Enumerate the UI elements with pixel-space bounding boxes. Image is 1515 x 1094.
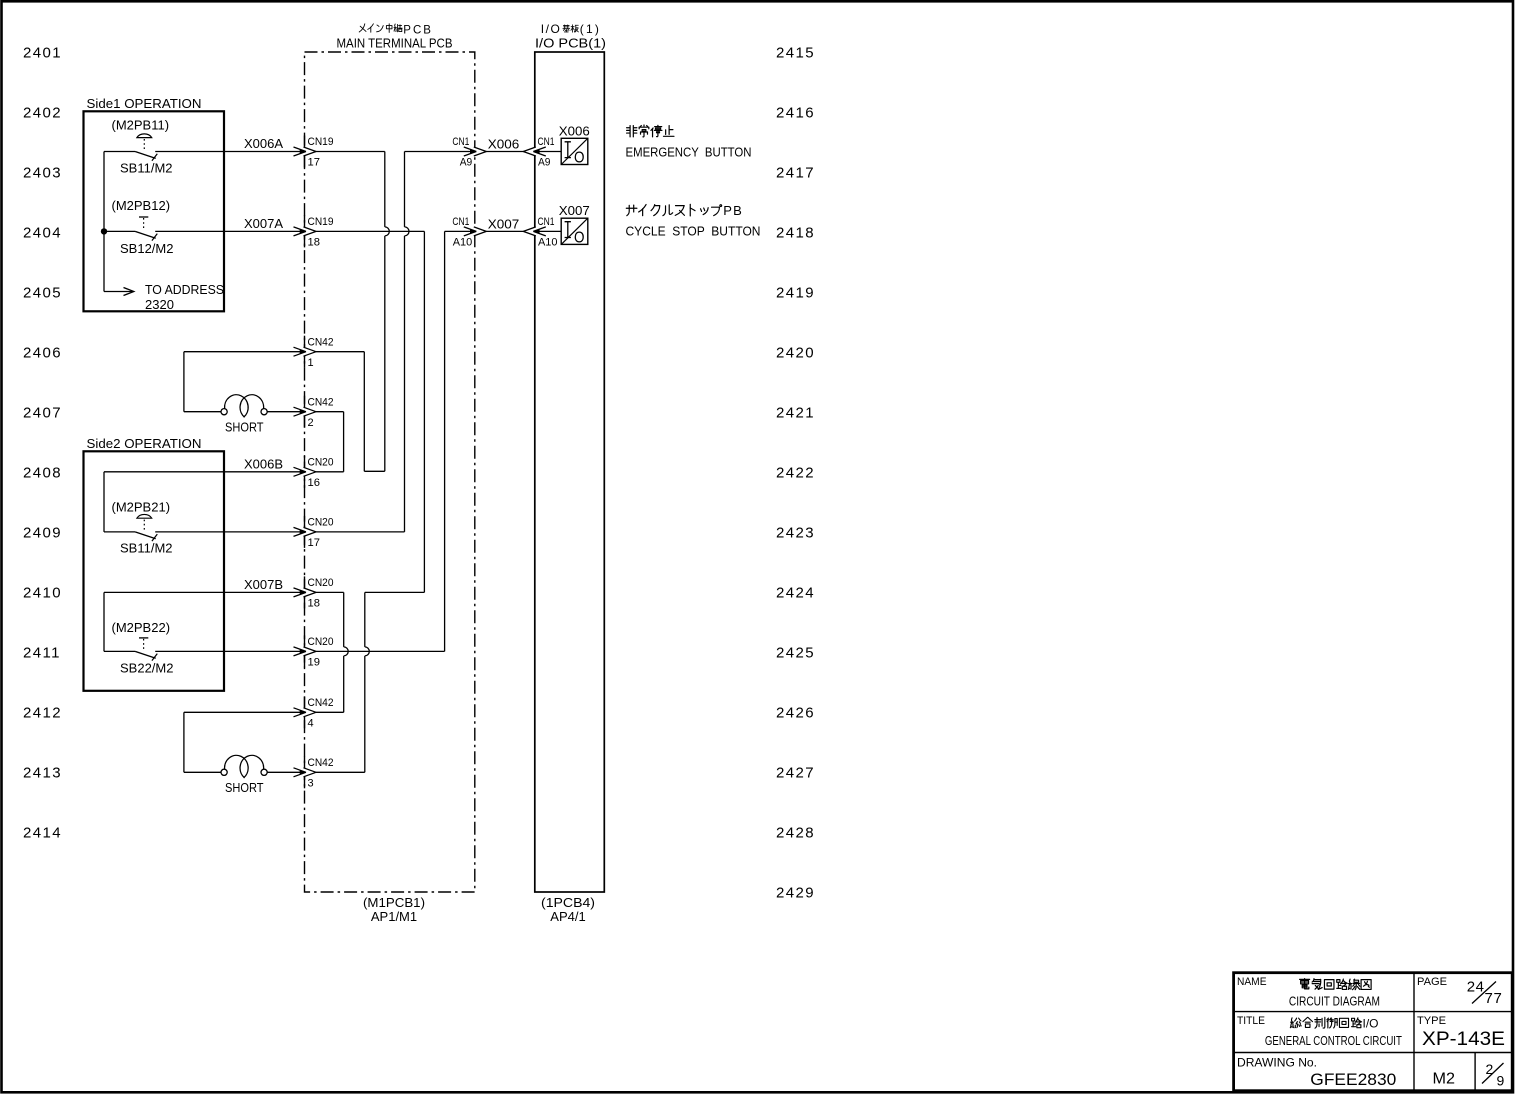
connector CN20 pin 19	[294, 635, 334, 668]
wire vertical CN20-17 riser to X006	[404, 152, 406, 227]
svg-text:19: 19	[308, 657, 321, 669]
wire from Side2 SB11 to CN20-17	[155, 531, 304, 533]
Side1 OPERATION station box	[84, 111, 225, 311]
wire X006A from SB11 to CN19-17	[155, 136, 304, 151]
label cycle stop button	[626, 203, 761, 239]
pushbutton SB22/M2 (M2PB22) cycle stop, Side2	[104, 620, 173, 676]
pushbutton SB12/M2 (M2PB12) cycle stop, Side1	[104, 198, 173, 256]
svg-text:18: 18	[308, 237, 321, 249]
svg-text:EMERGENCY BUTTON: EMERGENCY BUTTON	[626, 146, 752, 160]
title block TYPE cell XP-143E	[1417, 1015, 1505, 1050]
svg-text:CN42: CN42	[308, 697, 334, 709]
wire CN42-4 internal	[315, 711, 344, 713]
svg-text:A10: A10	[538, 237, 558, 249]
wire CN20-18 cross link	[365, 591, 425, 593]
wire U-bottom CN42-1 to X006A	[364, 470, 385, 472]
connector CN1-A10 I/O PCB side	[523, 216, 557, 249]
connector CN20 pin 16	[294, 456, 334, 489]
Side2 bus wire lower	[103, 592, 105, 651]
svg-text:CN1: CN1	[538, 136, 555, 148]
svg-text:SB11/M2: SB11/M2	[120, 541, 173, 556]
svg-text:TO ADDRESS: TO ADDRESS	[145, 282, 224, 297]
svg-text:(M2PB22): (M2PB22)	[112, 620, 171, 635]
connector CN42 pin 1	[294, 336, 334, 369]
svg-text:2403: 2403	[23, 164, 62, 181]
I/O PCB bottom designator (1PCB4) AP4/1	[541, 895, 595, 924]
svg-text:17: 17	[308, 157, 321, 169]
net X007 wire between boards	[485, 217, 524, 231]
svg-text:2404: 2404	[23, 224, 62, 241]
right address column 2415-2429	[776, 44, 815, 901]
svg-text:X006: X006	[488, 138, 520, 152]
svg-text:CN20: CN20	[308, 636, 334, 648]
wire CN19-17 internal	[315, 151, 385, 153]
svg-text:2414: 2414	[23, 824, 62, 841]
SHORT jumper plug between CN42-4 and CN42-3	[184, 712, 305, 795]
svg-text:TYPE: TYPE	[1417, 1015, 1446, 1027]
svg-text:2: 2	[308, 417, 314, 429]
svg-text:2415: 2415	[776, 44, 815, 61]
svg-text:CIRCUIT DIAGRAM: CIRCUIT DIAGRAM	[1289, 994, 1380, 1009]
connector CN1-A10 main PCB side	[452, 216, 486, 249]
svg-text:2425: 2425	[776, 644, 815, 661]
connector CN42 pin 3	[294, 756, 334, 789]
svg-text:2401: 2401	[23, 44, 62, 61]
svg-text:AP4/1: AP4/1	[550, 909, 585, 924]
svg-text:SB11/M2: SB11/M2	[120, 161, 173, 176]
title block TITLE cell	[1237, 1015, 1402, 1048]
svg-text:X007A: X007A	[244, 216, 283, 231]
svg-text:X006: X006	[559, 124, 590, 138]
svg-text:2402: 2402	[23, 104, 62, 121]
svg-text:CN42: CN42	[308, 336, 334, 348]
svg-text:CN20: CN20	[308, 517, 334, 529]
svg-text:2410: 2410	[23, 584, 62, 601]
svg-text:2422: 2422	[776, 464, 815, 481]
svg-text:A9: A9	[460, 157, 473, 169]
wire from Side2 SB22 to CN20-19	[155, 650, 304, 652]
svg-text:TITLE: TITLE	[1237, 1015, 1265, 1027]
wire vertical CN42-1 riser	[363, 352, 365, 472]
I/O PCB board outline (1PCB4)	[535, 52, 605, 892]
svg-text:2420: 2420	[776, 344, 815, 361]
wire CN42-1 internal	[315, 351, 364, 353]
svg-text:9: 9	[1497, 1072, 1505, 1088]
pushbutton SB11/M2 (M2PB21) emergency, Side2	[104, 500, 173, 556]
svg-text:2423: 2423	[776, 524, 815, 541]
main terminal PCB bottom designator (M1PCB1) AP1/M1	[363, 895, 425, 924]
svg-text:2413: 2413	[23, 764, 62, 781]
connector CN42 pin 4	[294, 696, 334, 729]
svg-text:Side1 OPERATION: Side1 OPERATION	[87, 96, 202, 111]
junction node SB11/SB12 bus	[101, 228, 107, 234]
svg-text:CYCLE STOP BUTTON: CYCLE STOP BUTTON	[626, 225, 761, 239]
connector CN19 pin 17	[294, 136, 334, 169]
svg-text:2320: 2320	[145, 297, 174, 312]
label emergency button	[626, 125, 752, 160]
pushbutton SB11/M2 (M2PB11) emergency, Side1	[104, 117, 173, 175]
svg-text:SB22/M2: SB22/M2	[120, 661, 173, 676]
wire CN20-19 internal	[315, 650, 445, 652]
wire vertical CN42-3 riser	[364, 592, 366, 647]
connector CN20 pin 18	[294, 576, 334, 609]
svg-text:MAIN TERMINAL PCB: MAIN TERMINAL PCB	[337, 37, 453, 51]
svg-text:SHORT: SHORT	[225, 420, 264, 435]
svg-text:A10: A10	[453, 237, 473, 249]
svg-text:GFEE2830: GFEE2830	[1310, 1070, 1396, 1089]
svg-text:(M2PB21): (M2PB21)	[112, 500, 171, 515]
svg-text:CN1: CN1	[452, 216, 469, 228]
svg-text:2427: 2427	[776, 764, 815, 781]
wire X007 to CN1-A10	[445, 230, 477, 232]
wire CN42-2 internal	[315, 411, 344, 413]
svg-text:2424: 2424	[776, 584, 815, 601]
svg-text:2428: 2428	[776, 824, 815, 841]
svg-text:(1): (1)	[580, 22, 601, 36]
wire CN20-16 internal	[315, 471, 344, 473]
svg-text:2406: 2406	[23, 344, 62, 361]
svg-text:PCB: PCB	[403, 24, 433, 36]
svg-text:2418: 2418	[776, 224, 815, 241]
svg-text:O: O	[574, 230, 585, 247]
svg-text:X007: X007	[559, 204, 590, 218]
svg-text:2411: 2411	[23, 644, 61, 661]
connector CN19 pin 18	[294, 215, 334, 248]
title block PAGE cell 24/77	[1417, 976, 1502, 1007]
wire CN20-17 internal	[315, 531, 405, 533]
svg-text:Side2 OPERATION: Side2 OPERATION	[87, 436, 202, 451]
I/O input point X006 (emergency button input)	[535, 124, 590, 166]
svg-text:X007B: X007B	[244, 577, 283, 592]
title block sheet 2/9 cell	[1482, 1061, 1505, 1088]
svg-text:I/O: I/O	[1363, 1016, 1379, 1030]
svg-text:17: 17	[308, 537, 321, 549]
connector CN20 pin 17	[294, 516, 334, 549]
wire vertical CN20-18 to CN42-4	[343, 592, 345, 647]
svg-text:CN19: CN19	[308, 136, 334, 148]
svg-text:X006B: X006B	[244, 457, 283, 472]
svg-text:GENERAL CONTROL CIRCUIT: GENERAL CONTROL CIRCUIT	[1265, 1034, 1402, 1048]
svg-text:(1PCB4): (1PCB4)	[541, 895, 595, 910]
svg-text:CN20: CN20	[308, 577, 334, 589]
svg-text:SB12/M2: SB12/M2	[120, 241, 173, 256]
svg-text:X006A: X006A	[244, 136, 283, 151]
svg-text:2421: 2421	[776, 404, 815, 421]
svg-text:2405: 2405	[23, 284, 62, 301]
wire CN42-3 internal	[315, 771, 365, 773]
TO ADDRESS 2320 reference arrow	[104, 282, 224, 312]
svg-text:CN20: CN20	[308, 457, 334, 469]
svg-text:16: 16	[308, 477, 321, 489]
svg-text:2412: 2412	[23, 704, 62, 721]
svg-text:CN42: CN42	[308, 396, 334, 408]
connector CN42 pin 2	[294, 396, 334, 429]
net X006 wire between boards	[485, 138, 524, 152]
svg-text:2429: 2429	[776, 884, 815, 901]
svg-text:2426: 2426	[776, 704, 815, 721]
SHORT jumper plug between CN42-1 and CN42-2	[184, 352, 305, 435]
title block NAME cell	[1237, 976, 1380, 1009]
Side2 bus wire upper	[103, 472, 105, 532]
svg-text:(M1PCB1): (M1PCB1)	[363, 895, 425, 910]
svg-text:I/O PCB(1): I/O PCB(1)	[535, 36, 606, 51]
svg-text:NAME: NAME	[1237, 976, 1267, 988]
wire CN20-18 internal	[315, 591, 344, 593]
Side1 left bus wire	[103, 152, 105, 292]
wire vertical X006A routing	[384, 152, 386, 227]
main terminal PCB title	[337, 24, 453, 51]
wire X006 to CN1-A9	[405, 151, 477, 153]
svg-text:M2: M2	[1433, 1071, 1456, 1088]
svg-text:18: 18	[308, 598, 321, 610]
wire X007B from Side2 box to CN20-18	[104, 577, 305, 592]
svg-text:AP1/M1: AP1/M1	[371, 909, 417, 924]
svg-text:X007: X007	[488, 217, 520, 231]
wire vertical X007A routing	[423, 231, 425, 592]
svg-text:4: 4	[308, 718, 314, 730]
svg-text:24: 24	[1467, 978, 1485, 995]
wire CN19-18 internal X007A	[315, 230, 424, 232]
svg-text:CN1: CN1	[452, 136, 469, 148]
svg-text:DRAWING No.: DRAWING No.	[1237, 1056, 1317, 1070]
svg-text:SHORT: SHORT	[225, 780, 264, 795]
connector CN1-A9 I/O PCB side	[523, 136, 554, 169]
svg-text:A9: A9	[538, 157, 551, 169]
left address column 2401-2414	[23, 44, 62, 841]
I/O PCB title	[535, 22, 606, 50]
svg-text:(M2PB11): (M2PB11)	[112, 117, 170, 132]
main terminal PCB board outline (M1PCB1)	[305, 52, 475, 892]
svg-text:2419: 2419	[776, 284, 815, 301]
svg-text:77: 77	[1485, 990, 1503, 1007]
svg-text:2409: 2409	[23, 524, 62, 541]
connector CN1-A9 main PCB side	[452, 136, 486, 169]
svg-text:2408: 2408	[23, 464, 62, 481]
Side2 OPERATION station box	[84, 451, 225, 691]
svg-text:1: 1	[308, 357, 314, 369]
svg-text:2407: 2407	[23, 404, 62, 421]
svg-text:O: O	[574, 150, 585, 167]
svg-text:2416: 2416	[776, 104, 815, 121]
wire X007A from SB12 to CN19-18	[155, 216, 304, 231]
I/O input point X007 (cycle stop input)	[535, 204, 590, 246]
wire vertical CN20-19 riser to X007	[444, 231, 446, 651]
svg-text:PB: PB	[723, 203, 743, 218]
svg-text:CN42: CN42	[308, 757, 334, 769]
svg-text:XP-143E: XP-143E	[1422, 1028, 1505, 1050]
wire vertical CN42-2 to CN20-16	[343, 412, 345, 472]
svg-text:CN1: CN1	[538, 216, 555, 228]
svg-text:3: 3	[308, 778, 314, 790]
svg-text:CN19: CN19	[308, 216, 334, 228]
title block DRAWING No. cell GFEE2830	[1237, 1056, 1396, 1090]
svg-text:(M2PB12): (M2PB12)	[112, 198, 171, 213]
svg-text:2417: 2417	[776, 164, 815, 181]
title block frame	[1234, 973, 1513, 1091]
wire X006B from Side2 box to CN20-16	[104, 457, 305, 472]
svg-text:PAGE: PAGE	[1417, 976, 1447, 988]
svg-text:I/O: I/O	[541, 22, 562, 36]
